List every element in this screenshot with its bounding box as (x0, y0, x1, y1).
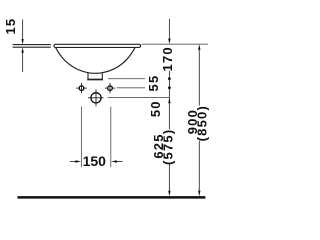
countertop extension line right (142, 43, 208, 45)
chain dimension line 170/55/50 (168, 19, 170, 192)
drain hole center (88, 89, 104, 106)
drain bottom extension line (108, 78, 145, 80)
dimension 15 line (22, 20, 24, 73)
faucet hole left (76, 83, 86, 93)
svg-text:(575): (575) (160, 129, 175, 165)
svg-text:50: 50 (148, 100, 163, 117)
dimension line 900 right (198, 50, 200, 192)
countertop left double line (13, 45, 51, 48)
dimension 900 arrows (198, 44, 200, 196)
basin rim (54, 44, 141, 47)
svg-text:170: 170 (160, 46, 175, 71)
chain arrows and dots (168, 39, 171, 197)
dimension 150 extension lines (81, 107, 110, 168)
svg-text:150: 150 (83, 153, 107, 169)
dimension 150 arrows (70, 160, 123, 162)
basin bowl (56, 47, 136, 73)
faucet hole right (105, 83, 115, 93)
svg-text:55: 55 (146, 75, 161, 92)
drain housing (87, 73, 103, 80)
svg-text:15: 15 (3, 18, 18, 35)
drain center extension line (108, 97, 170, 99)
dimension 15 arrows (21, 39, 23, 53)
floor line (18, 196, 206, 199)
svg-text:(850): (850) (195, 105, 210, 141)
faucet holes extension line (117, 87, 145, 89)
